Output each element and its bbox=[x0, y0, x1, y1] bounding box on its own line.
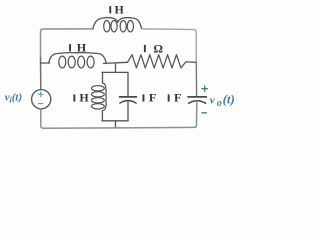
label 1 F (capacitor C2): digit 1 bbox=[168, 94, 170, 101]
wire: stub node B down to LC box bbox=[115, 63, 117, 72]
voltage source minus sign bbox=[39, 103, 43, 105]
svg-text:H: H bbox=[79, 91, 89, 105]
inductor L3 (vertical, 1 H) coil canopy bbox=[102, 83, 106, 111]
wire: LC box left vertical upper bbox=[102, 72, 104, 83]
inductor L2 loop 3 bbox=[78, 56, 85, 68]
inductor L1 loop 1 bbox=[104, 21, 110, 32]
label 1 H (vertical inductor): digit 1 bbox=[73, 94, 75, 101]
inductor L3 loop 3 bbox=[92, 98, 105, 103]
svg-text:Ω: Ω bbox=[153, 42, 163, 56]
label 1 F (capacitor C1): digit 1 bbox=[143, 94, 145, 101]
svg-text:H: H bbox=[115, 2, 125, 16]
inductor L3 loop 1 bbox=[92, 86, 105, 91]
wire: top branch left lead with rounded top-left corner bbox=[41, 29, 94, 60]
wire: row-2 lead from left rail bbox=[41, 62, 50, 64]
wire: LC box right vertical upper (cap C1 top lead) bbox=[127, 72, 129, 96]
capacitor C1 curved bottom plate bbox=[120, 101, 136, 103]
inductor L2 loop 1 bbox=[59, 56, 66, 68]
svg-text:vi(t): vi(t) bbox=[5, 91, 23, 104]
wire: right rail lower, bottom-right corner bbox=[116, 101, 197, 128]
wire: cap C1 bottom lead bbox=[127, 101, 129, 121]
wire: top branch right lead with rounded top-right corner bbox=[141, 29, 196, 63]
inductor L1 (top, 1 H) coil canopy bbox=[93, 18, 142, 29]
svg-text:vo(t): vo(t) bbox=[210, 92, 235, 110]
wire: right rail upper (cap C2 top lead) bbox=[195, 63, 197, 97]
capacitor C2 (1 F) top plate bbox=[188, 96, 206, 98]
capacitor C1 (1 F) top plate bbox=[120, 96, 137, 98]
wire: stub LC box to bottom rail bbox=[115, 121, 117, 128]
minus sign (output polarity) bbox=[202, 112, 207, 114]
svg-text:F: F bbox=[174, 91, 181, 105]
inductor L1 loop 3 bbox=[120, 21, 126, 32]
inductor L1 loop 4 bbox=[127, 21, 133, 32]
inductor L2 loop 4 bbox=[87, 56, 94, 68]
label 1 H (row-2 inductor): digit 1 bbox=[69, 44, 71, 51]
inductor L3 loop 2 bbox=[92, 92, 105, 97]
label 1 ohm: digit 1 bbox=[144, 45, 146, 52]
capacitor C2 curved bottom plate bbox=[189, 101, 206, 104]
plus sign (output polarity) bbox=[202, 86, 207, 91]
wire: left rail upper (node A) bbox=[40, 58, 42, 89]
wire: row-2 from coil to resistor (node B) bbox=[104, 62, 128, 63]
wire: LC box top bar bbox=[102, 71, 128, 73]
inductor L2 loop 2 bbox=[68, 56, 75, 68]
wire: LC box bottom bar bbox=[102, 120, 128, 122]
inductor L1 loop 2 bbox=[111, 21, 117, 32]
label 1 H (top inductor): digit 1 bbox=[109, 6, 111, 13]
resistor R1 (1 ohm) zigzag bbox=[128, 55, 197, 68]
wire: left rail lower, bottom-left corner bbox=[41, 109, 116, 128]
svg-text:H: H bbox=[77, 40, 87, 54]
voltage source vi(t) circle bbox=[32, 90, 51, 109]
wire: LC box left vertical lower bbox=[101, 111, 103, 121]
svg-text:F: F bbox=[149, 91, 156, 105]
inductor L3 loop 4 bbox=[92, 104, 105, 109]
inductor L2 (row 2, 1 H) coil canopy bbox=[49, 53, 107, 64]
voltage source plus sign bbox=[38, 92, 43, 97]
